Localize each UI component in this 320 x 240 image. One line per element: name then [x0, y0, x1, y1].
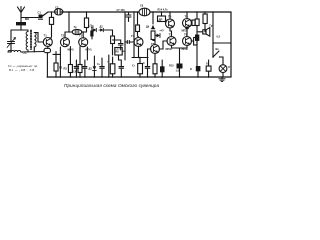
wire T5 emitter	[154, 53, 156, 64]
resistor R3	[68, 65, 72, 73]
wire C6 leads	[91, 27, 93, 39]
wire C12 down	[120, 45, 122, 50]
wire R8 down	[112, 44, 114, 56]
capacitor C18 electrolytic	[195, 35, 199, 41]
svg-text:R3: R3	[64, 68, 68, 71]
wire to bottom bus	[46, 53, 48, 77]
node rail x213	[212, 11, 213, 12]
svg-text:R2: R2	[59, 67, 63, 70]
ground	[219, 77, 225, 82]
wire emitters to R15	[179, 48, 181, 64]
capacitor C10	[83, 60, 87, 77]
svg-text:МП39: МП39	[182, 49, 189, 51]
resistor R17	[195, 19, 199, 26]
wire drop x213	[212, 12, 214, 57]
resistor R10	[136, 25, 140, 32]
wire drop x70.4	[69, 47, 71, 65]
wire R1 to rail	[51, 12, 53, 17]
electrolytic C14	[110, 57, 115, 77]
wire mid y57	[132, 57, 148, 59]
capacitor C9	[74, 60, 78, 77]
electrolytic C20	[160, 60, 165, 77]
IF transformer L5	[72, 29, 82, 34]
wire drop x197	[196, 12, 198, 66]
inductor L3 secondary winding	[34, 33, 36, 47]
transistor T6	[166, 19, 175, 28]
capacitor C6 electrolytic	[90, 31, 93, 37]
node mid x138.5	[138, 57, 139, 58]
wire R11 to T5 collector	[153, 40, 155, 41]
wire R5 top	[55, 52, 57, 64]
wire T7 collector	[186, 12, 188, 19]
wire rod to tank	[20, 26, 22, 31]
svg-text:R9: R9	[116, 51, 120, 54]
svg-text:МП39: МП39	[166, 49, 173, 51]
right rail	[230, 12, 232, 77]
wire T7 to C17	[190, 22, 193, 24]
wire R2 bottom	[86, 28, 88, 33]
resistor R18	[196, 66, 201, 71]
wire D2 to R8	[105, 30, 113, 36]
capacitor C7	[126, 12, 131, 22]
svg-text:Вк: Вк	[216, 47, 220, 51]
wire T5 collector	[154, 41, 156, 45]
svg-text:0,5: 0,5	[217, 36, 221, 39]
wire T8 emitter	[172, 45, 180, 48]
wire C13 to T4 base	[125, 41, 134, 43]
wire jog y54	[53, 53, 60, 55]
wire L3 bottom	[33, 47, 35, 52]
wire R2 to rail	[86, 12, 88, 18]
svg-text:С1 — „нормально“ пр.: С1 — „нормально“ пр.	[8, 64, 38, 68]
diode D3	[151, 25, 155, 29]
wire drop x205	[204, 12, 206, 14]
ferrite rod L1	[16, 22, 26, 25]
resistor R2	[84, 18, 88, 28]
resistor R1	[49, 17, 53, 24]
svg-text:Т7: Т7	[169, 33, 173, 37]
diode D1	[93, 28, 97, 31]
capacitor C19	[145, 58, 150, 78]
rect R20	[206, 66, 211, 71]
capacitor C11	[100, 58, 104, 77]
wire R12 bus	[154, 74, 156, 77]
capacitor C1	[39, 15, 43, 20]
node tank top	[20, 29, 21, 30]
node x125 C13	[124, 41, 125, 42]
resistor R12	[153, 64, 157, 74]
svg-text:Т1: Т1	[44, 34, 48, 38]
capacitor C15	[119, 60, 124, 77]
svg-text:Гр: Гр	[210, 24, 213, 28]
wire drop x134	[133, 12, 135, 58]
wire DR to T6 base	[165, 20, 168, 23]
transistor T3	[79, 38, 88, 47]
transistor T1	[43, 38, 52, 47]
svg-text:Т3: Т3	[79, 34, 83, 38]
diode D5	[93, 56, 97, 77]
resistor R15	[177, 64, 183, 69]
inductor L4 coupling coil	[8, 50, 21, 52]
svg-text:МП41: МП41	[68, 49, 75, 52]
wire T5 base	[148, 49, 151, 58]
svg-text:Д3: Д3	[89, 68, 93, 71]
node R1 rail	[51, 11, 52, 12]
svg-text:С+: С+	[97, 63, 101, 66]
potentiometer R9	[115, 48, 125, 56]
svg-text:R14 4,7к: R14 4,7к	[158, 9, 169, 12]
node rail x205	[204, 11, 205, 12]
capacitor C12	[118, 44, 123, 46]
svg-text:С3: С3	[55, 6, 59, 10]
wire lamp to bus	[222, 73, 224, 78]
wire drop x87.4	[86, 47, 88, 60]
wire drop x108.8	[108, 55, 110, 77]
top rail right	[150, 11, 231, 13]
electrolytic C8 series oval	[139, 8, 150, 16]
svg-text:С7 150: С7 150	[117, 9, 126, 12]
transistor T9	[183, 37, 192, 46]
capacitor C13 coupling	[127, 41, 129, 44]
node rail x125	[124, 11, 125, 12]
wire R9 bottom to bus	[119, 55, 122, 60]
svg-text:МП39: МП39	[182, 31, 189, 33]
wire DR to rail	[161, 12, 163, 16]
svg-text:Т4: Т4	[131, 34, 135, 38]
node rail x153	[152, 11, 153, 12]
wire tank top	[11, 29, 28, 31]
svg-text:ДР: ДР	[159, 18, 163, 22]
svg-text:Д2: Д2	[100, 26, 104, 29]
wire drop x125	[124, 12, 126, 58]
inductor L2 primary winding	[26, 30, 28, 52]
transistor T8	[167, 37, 176, 46]
node DR rail	[161, 11, 162, 12]
wire drop x60.4	[59, 47, 61, 77]
wire T9 to R16	[191, 40, 193, 42]
bus junction dots	[47, 76, 224, 78]
node rail x69	[68, 11, 69, 12]
svg-text:R: R	[190, 68, 192, 71]
svg-text:С1: С1	[38, 11, 42, 15]
node rail x134	[133, 11, 134, 12]
core of L2	[30, 30, 31, 50]
resistor R5	[54, 63, 58, 71]
diode D4 bias	[155, 34, 160, 38]
svg-text:МП41: МП41	[86, 49, 93, 52]
wire L3 to T1 base	[34, 33, 43, 43]
resistor R16	[194, 38, 197, 46]
node T3 collector	[83, 31, 84, 32]
svg-text:В1 — „ЭВ“, СВ: В1 — „ЭВ“, СВ	[9, 68, 34, 72]
wire tank bottom	[8, 51, 44, 54]
svg-text:Принципиальная схема Омского с: Принципиальная схема Омского сувенира	[64, 83, 159, 88]
svg-text:Т5: Т5	[151, 42, 155, 46]
wire drop x69	[65, 12, 69, 32]
wire T6 collector	[169, 12, 171, 19]
capacitor C3 series	[55, 9, 63, 15]
top rail main	[61, 11, 139, 13]
transistor T5	[151, 45, 160, 54]
transistor T2	[61, 38, 70, 47]
switch Vk	[212, 51, 220, 58]
emitter blob T7	[185, 27, 188, 30]
svg-text:Т6: Т6	[185, 15, 189, 19]
resistor R11	[151, 31, 155, 40]
bottom bus	[47, 76, 231, 78]
lamp L	[219, 65, 227, 73]
node T7 rail	[186, 11, 187, 12]
emitter element of T1	[44, 48, 51, 52]
wire tie to right rail	[213, 42, 231, 44]
node x69 mid	[68, 31, 69, 32]
electrolytic C16	[138, 58, 143, 78]
diode D2	[99, 28, 105, 31]
svg-text:Д9: Д9	[146, 26, 150, 29]
resistor R8	[111, 36, 115, 44]
wire R20	[208, 60, 210, 77]
svg-text:R15: R15	[169, 65, 174, 68]
transistor T4	[134, 38, 143, 47]
wire T7 emitter down	[186, 29, 188, 37]
transistor T7	[183, 19, 192, 28]
wire D3 drop	[152, 12, 154, 24]
wire T1 collector	[50, 24, 51, 38]
wire T2 collector	[64, 32, 66, 38]
wire T4 emitter	[138, 46, 140, 57]
svg-text:Т8: Т8	[184, 33, 188, 37]
wire speaker left	[197, 31, 203, 33]
wire drop x80	[79, 47, 81, 65]
svg-text:×47: ×47	[160, 30, 165, 33]
wire antenna tap	[21, 17, 38, 19]
node x140 y57	[139, 57, 140, 58]
wire R3 bus	[69, 73, 71, 78]
wire T6 emitter down	[170, 28, 172, 37]
wire C12 branch	[113, 40, 121, 43]
svg-text:С: С	[143, 62, 145, 65]
wire R4 bus	[79, 73, 81, 78]
wire T1 emitter	[47, 46, 49, 48]
resistor R4	[78, 65, 82, 73]
speaker Gr	[203, 28, 210, 37]
svg-text:Тр: Тр	[74, 25, 77, 29]
node x213 y43	[212, 42, 213, 43]
antenna W1	[18, 7, 25, 23]
svg-text:Д1: Д1	[91, 26, 95, 29]
variable capacitor C2	[7, 30, 16, 52]
wire R18 to bus	[197, 71, 199, 77]
wire R10 drop	[137, 12, 139, 25]
wire R10 to T4	[138, 32, 139, 38]
wire L5 left	[69, 31, 72, 33]
wire R19 down	[204, 24, 206, 32]
wire T5 to output bases	[159, 41, 167, 49]
node mid x134	[133, 57, 134, 58]
top rail left	[48, 11, 56, 13]
node rail x137.5	[137, 11, 138, 12]
wire switch to lamp	[220, 57, 223, 65]
svg-text:С8: С8	[140, 5, 144, 8]
svg-text:Л: Л	[228, 65, 230, 69]
svg-text:Т2: Т2	[61, 34, 65, 38]
wire L5 right	[82, 31, 87, 33]
wire R5 bus	[55, 71, 57, 77]
node T6 rail	[169, 11, 170, 12]
wire T9 emitter	[180, 45, 188, 48]
driver box DR	[158, 16, 166, 22]
resistor R19	[203, 14, 207, 24]
node R2 rail	[86, 11, 87, 12]
node rail x197	[196, 11, 197, 12]
capacitor C17	[192, 20, 195, 26]
wire T3 collector	[82, 32, 84, 38]
wire x125 to bus	[124, 58, 126, 61]
wire R15 to bus	[179, 69, 181, 78]
svg-text:С+: С+	[132, 65, 136, 68]
wire C1 to rail	[43, 12, 49, 16]
